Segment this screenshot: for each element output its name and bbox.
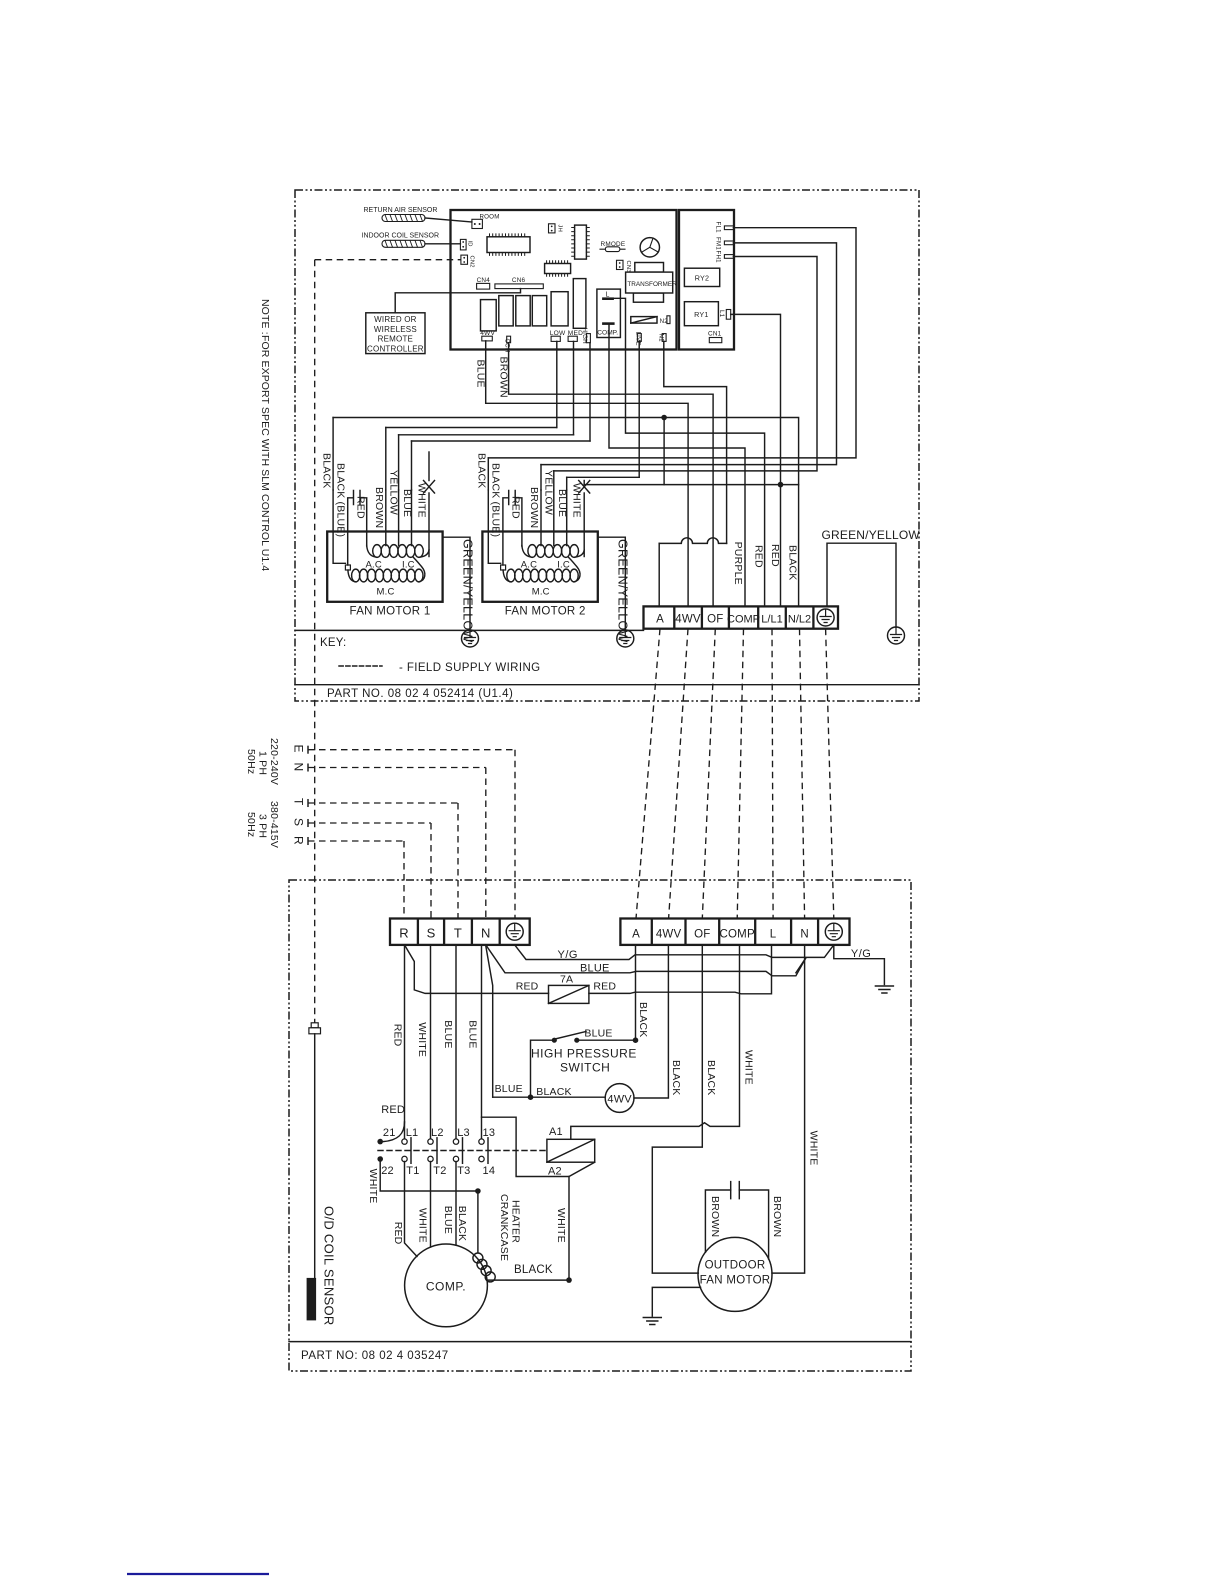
svg-text:RED: RED (381, 1104, 405, 1116)
svg-text:T1: T1 (406, 1165, 419, 1177)
svg-text:CONTROLLER: CONTROLLER (367, 344, 424, 353)
svg-text:OUTDOOR: OUTDOOR (705, 1260, 766, 1272)
svg-text:WHITE: WHITE (808, 1131, 820, 1166)
svg-text:ROOM: ROOM (480, 214, 500, 221)
svg-text:M.C: M.C (377, 587, 395, 598)
svg-text:L1: L1 (718, 310, 725, 318)
svg-text:GREEN/YELLOW: GREEN/YELLOW (461, 539, 475, 643)
svg-text:22: 22 (381, 1165, 394, 1177)
svg-text:COMP.: COMP. (426, 1280, 466, 1294)
svg-text:CN2: CN2 (469, 256, 475, 268)
svg-text:BLACK: BLACK (536, 1086, 571, 1098)
svg-text:L1: L1 (406, 1127, 419, 1139)
svg-text:- FIELD SUPPLY WIRING: - FIELD SUPPLY WIRING (399, 662, 541, 674)
svg-text:A.C: A.C (366, 560, 382, 571)
svg-text:A.C: A.C (521, 560, 537, 571)
svg-text:RED: RED (510, 496, 522, 519)
svg-text:FAN MOTOR 1: FAN MOTOR 1 (350, 606, 431, 618)
svg-text:WHITE: WHITE (743, 1050, 755, 1085)
svg-text:BLUE: BLUE (475, 360, 487, 388)
svg-text:HIGH PRESSURE: HIGH PRESSURE (531, 1047, 637, 1061)
svg-text:21: 21 (383, 1127, 396, 1139)
svg-text:RETURN AIR SENSOR: RETURN AIR SENSOR (364, 207, 438, 214)
svg-text:A: A (656, 614, 664, 626)
svg-text:RED: RED (392, 1222, 404, 1245)
svg-text:BLACK: BLACK (476, 453, 488, 488)
svg-text:R: R (292, 836, 306, 845)
svg-text:T: T (292, 798, 306, 806)
svg-text:WHITE: WHITE (416, 483, 428, 518)
svg-text:S: S (427, 926, 436, 941)
svg-text:SWITCH: SWITCH (560, 1061, 610, 1075)
svg-text:380-415V3 PH50Hz: 380-415V3 PH50Hz (245, 801, 280, 848)
svg-text:FL1: FL1 (715, 222, 722, 234)
svg-text:WHITE: WHITE (367, 1169, 379, 1204)
svg-text:BLACK: BLACK (670, 1060, 682, 1095)
svg-text:FAN MOTOR 2: FAN MOTOR 2 (505, 606, 586, 618)
svg-text:BROWN: BROWN (771, 1196, 783, 1237)
svg-text:WIRELESS: WIRELESS (374, 325, 417, 334)
svg-text:O/D COIL SENSOR: O/D COIL SENSOR (322, 1206, 337, 1326)
svg-text:RY2: RY2 (695, 274, 709, 283)
svg-text:RED: RED (593, 981, 616, 993)
svg-text:T3: T3 (457, 1165, 470, 1177)
svg-text:BLACK: BLACK (321, 453, 333, 488)
svg-text:CRANKCASE: CRANKCASE (498, 1194, 510, 1261)
svg-text:CN1: CN1 (708, 331, 722, 338)
svg-text:BLACK: BLACK (787, 545, 799, 580)
svg-text:WHITE: WHITE (555, 1208, 567, 1243)
svg-text:COMP: COMP (727, 614, 760, 626)
svg-text:BLACK (BLUE): BLACK (BLUE) (335, 463, 347, 537)
svg-text:COMP.: COMP. (597, 330, 618, 337)
svg-text:BROWN: BROWN (528, 487, 540, 528)
svg-text:PART NO. 08 02 4 052414 (U1.: PART NO. 08 02 4 052414 (U1.4) (327, 688, 513, 700)
svg-text:T2: T2 (433, 1165, 446, 1177)
svg-text:BLUE: BLUE (495, 1083, 523, 1095)
svg-text:13: 13 (483, 1127, 496, 1139)
svg-text:BLUE: BLUE (442, 1020, 454, 1048)
svg-text:R: R (399, 926, 409, 941)
svg-text:OF: OF (707, 614, 723, 626)
svg-text:BROWN: BROWN (498, 357, 510, 398)
svg-text:I.C: I.C (402, 560, 415, 571)
svg-text:WHITE: WHITE (417, 1208, 429, 1243)
svg-text:WIRED OR: WIRED OR (374, 315, 417, 324)
svg-text:BROWN: BROWN (373, 487, 385, 528)
svg-text:BLUE: BLUE (467, 1020, 479, 1048)
svg-text:YELLOW: YELLOW (543, 470, 555, 515)
svg-text:T: T (454, 926, 462, 941)
svg-text:COMP: COMP (720, 929, 755, 941)
svg-text:KEY:: KEY: (320, 637, 346, 649)
svg-text:WHITE: WHITE (416, 1022, 428, 1057)
svg-text:4WV: 4WV (656, 929, 682, 941)
svg-text:FOR EXPORT SPEC WITH SLM CONTR: FOR EXPORT SPEC WITH SLM CONTROL U1.4 (259, 335, 271, 571)
svg-text:RED: RED (392, 1024, 404, 1047)
svg-text:HEATER: HEATER (510, 1200, 522, 1243)
svg-text:BLUE: BLUE (401, 489, 413, 517)
svg-text:TRANSFORMER: TRANSFORMER (627, 281, 677, 288)
svg-text:L: L (770, 929, 777, 941)
svg-text:I.C: I.C (557, 560, 570, 571)
svg-text:FH1: FH1 (715, 251, 722, 264)
svg-text:CN3: CN3 (625, 261, 631, 273)
svg-text:S: S (292, 818, 306, 826)
svg-text:OF: OF (694, 929, 710, 941)
svg-text:4WV: 4WV (607, 1094, 632, 1106)
svg-text:A1: A1 (549, 1126, 563, 1138)
svg-text:BLACK: BLACK (514, 1264, 553, 1276)
svg-text:M.C: M.C (532, 587, 550, 598)
svg-text:GREEN/YELLOW: GREEN/YELLOW (616, 539, 630, 643)
svg-text:YELLOW: YELLOW (388, 470, 400, 515)
svg-text:BLUE: BLUE (580, 963, 610, 975)
svg-text:FAN MOTOR: FAN MOTOR (700, 1275, 771, 1287)
svg-text:BLACK: BLACK (705, 1060, 717, 1095)
svg-text:N: N (800, 929, 809, 941)
svg-text:PART NO: 08 02 4 035247: PART NO: 08 02 4 035247 (301, 1350, 449, 1362)
svg-text:BLACK: BLACK (637, 1002, 649, 1037)
svg-text:GREEN/YELLOW: GREEN/YELLOW (822, 528, 921, 542)
svg-text:RY1: RY1 (694, 310, 708, 319)
svg-text:220-240V1 PH50Hz: 220-240V1 PH50Hz (245, 738, 280, 785)
svg-text:N/L2: N/L2 (788, 614, 811, 626)
svg-text:BLUE: BLUE (556, 489, 568, 517)
svg-text:A2: A2 (548, 1166, 562, 1178)
svg-text:RED: RED (753, 545, 765, 568)
svg-text:14: 14 (483, 1165, 496, 1177)
svg-text:BLACK: BLACK (456, 1206, 468, 1241)
svg-text:BROWN: BROWN (709, 1196, 721, 1237)
svg-text:L3: L3 (457, 1127, 470, 1139)
svg-text:L/L1: L/L1 (761, 614, 782, 626)
svg-text:PURPLE: PURPLE (732, 542, 744, 585)
svg-text:L2: L2 (431, 1127, 444, 1139)
svg-text:E: E (292, 745, 306, 753)
svg-text:N: N (481, 926, 491, 941)
svg-text:BLUE: BLUE (584, 1028, 612, 1040)
svg-text:JH: JH (557, 225, 563, 233)
svg-text:CN6: CN6 (512, 277, 526, 284)
svg-text:NOTE :: NOTE : (259, 299, 271, 335)
svg-text:RED: RED (516, 981, 539, 993)
svg-text:A: A (632, 929, 640, 941)
svg-text:7A: 7A (560, 974, 573, 986)
svg-text:WHITE: WHITE (571, 483, 583, 518)
svg-text:4WV: 4WV (675, 614, 701, 626)
svg-text:BLUE: BLUE (442, 1206, 454, 1234)
svg-text:Y/G: Y/G (558, 949, 578, 961)
svg-text:BLACK (BLUE): BLACK (BLUE) (490, 463, 502, 537)
svg-text:INDOOR COIL SENSOR: INDOOR COIL SENSOR (362, 233, 440, 240)
svg-text:ID: ID (467, 241, 473, 247)
svg-text:N: N (292, 763, 306, 772)
svg-text:FM1: FM1 (715, 237, 722, 250)
svg-text:REMOTE: REMOTE (378, 335, 413, 344)
svg-text:RED: RED (355, 496, 367, 519)
svg-text:RED: RED (769, 544, 781, 567)
